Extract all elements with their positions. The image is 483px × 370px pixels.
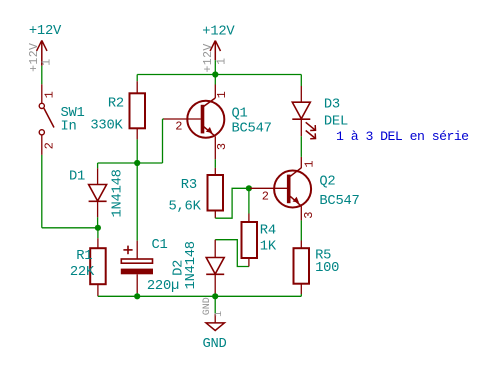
svg-text:1: 1 xyxy=(40,58,53,65)
wire Q2 emitter to R5 xyxy=(300,220,302,240)
svg-text:Q1: Q1 xyxy=(232,107,248,122)
resistor R2 bottom lead xyxy=(136,128,138,139)
switch SW1 pin1 lead xyxy=(41,84,43,103)
svg-text:220µ: 220µ xyxy=(147,279,179,294)
transistor Q1 circle xyxy=(187,101,224,138)
LED D3 triangle xyxy=(292,102,310,119)
resistor R2 top lead xyxy=(136,81,138,93)
switch SW1 blade xyxy=(44,108,54,127)
svg-text:1K: 1K xyxy=(260,239,277,254)
transistor Q2 emitter diagonal xyxy=(290,196,301,206)
resistor R1 bottom lead xyxy=(97,284,99,296)
svg-text:1: 1 xyxy=(216,58,229,65)
svg-text:GND: GND xyxy=(203,337,227,352)
wire D1 to node xyxy=(97,217,99,228)
junction C1 bottom rail xyxy=(134,293,140,299)
diode D2 bottom lead xyxy=(214,274,216,296)
svg-text:1N4148: 1N4148 xyxy=(184,241,199,289)
junction switch/D1/R1 xyxy=(95,225,101,231)
svg-text:BC547: BC547 xyxy=(319,194,359,209)
svg-text:R2: R2 xyxy=(108,97,124,112)
resistor R5 top lead xyxy=(300,241,302,249)
junction R2/D1/C1/base node xyxy=(134,160,140,166)
resistor R4 body xyxy=(242,222,258,258)
svg-text:R1: R1 xyxy=(76,249,92,264)
wire Q1 emitter to R3 xyxy=(214,159,216,168)
svg-text:1 à 3 DEL en série: 1 à 3 DEL en série xyxy=(336,129,469,144)
junction R3/R4/Q2 base xyxy=(246,185,252,191)
svg-text:3: 3 xyxy=(302,211,316,218)
svg-text:1: 1 xyxy=(42,91,56,98)
resistor R1 top lead xyxy=(97,238,99,248)
resistor R5 bottom lead xyxy=(300,284,302,294)
resistor R3 top lead xyxy=(214,168,216,175)
wire node to R1 xyxy=(97,228,99,238)
transistor Q2 collector pin xyxy=(300,157,302,168)
transistor Q1 base bar xyxy=(201,105,205,134)
switch SW1 pin2 lead xyxy=(41,135,43,155)
svg-text:BC547: BC547 xyxy=(232,122,272,137)
capacitor C1 plus sign xyxy=(123,246,132,255)
wire bottom rail xyxy=(98,295,301,297)
wire R3 bottom jog xyxy=(215,188,249,218)
transistor Q1 emitter diagonal xyxy=(204,127,216,137)
wire R5 to bottom rail xyxy=(300,294,302,296)
ground symbol stem xyxy=(214,296,216,313)
svg-text:1N4148: 1N4148 xyxy=(110,169,125,217)
wire power to switch xyxy=(41,66,43,85)
wire node to D1 xyxy=(97,163,99,168)
svg-text:1: 1 xyxy=(302,160,316,167)
capacitor C1 top plate xyxy=(121,259,152,263)
resistor R3 bottom lead xyxy=(214,211,216,219)
junction D2/GND bottom rail xyxy=(212,293,218,299)
diode D1 bottom lead xyxy=(97,201,99,217)
wire junction down to R4 xyxy=(248,188,250,213)
svg-text:1: 1 xyxy=(214,311,225,317)
wire C1 to bottom rail xyxy=(136,293,138,296)
diode D1 triangle xyxy=(89,185,107,202)
svg-text:3: 3 xyxy=(215,143,229,150)
resistor R5 body xyxy=(294,248,310,284)
wire R4 bottom jog to D2 xyxy=(215,240,249,267)
diode D3 bottom lead xyxy=(300,119,302,136)
wire R2 to node xyxy=(136,139,138,163)
transistor Q2 emitter pin xyxy=(300,206,302,220)
diode D3 top lead xyxy=(300,86,302,102)
capacitor C1 bottom lead xyxy=(136,274,138,293)
diode D2 top lead xyxy=(214,240,216,258)
svg-text:D3: D3 xyxy=(324,98,340,113)
transistor Q1 collector pin xyxy=(214,85,216,99)
svg-text:+12V: +12V xyxy=(202,43,215,72)
diode D1 cathode bar xyxy=(89,200,107,202)
svg-text:2: 2 xyxy=(175,120,182,134)
LED D3 cathode bar xyxy=(292,118,310,120)
ground triangle xyxy=(206,323,224,331)
svg-text:C1: C1 xyxy=(152,238,168,253)
diode D2 cathode bar xyxy=(206,273,224,275)
wire switch to R1/D1 node xyxy=(42,227,98,229)
wire rail down to D3 xyxy=(300,75,302,87)
svg-text:DEL: DEL xyxy=(324,115,348,130)
transistor Q2 emitter arrowhead xyxy=(293,197,300,203)
resistor R4 top lead xyxy=(248,214,250,223)
svg-text:D1: D1 xyxy=(69,170,85,185)
switch SW1 pin1 circle xyxy=(39,103,44,108)
transistor Q1 emitter arrowhead xyxy=(206,127,213,133)
switch SW1 pin2 circle xyxy=(39,130,44,135)
transistor Q2 circle xyxy=(274,171,311,208)
resistor R3 body xyxy=(208,175,224,211)
wire node horizontal D1 to base branch xyxy=(98,162,163,164)
wire base branch to Q1 xyxy=(163,118,165,120)
transistor Q2 base bar xyxy=(287,175,291,204)
wire rail to Q1 collector xyxy=(214,75,216,85)
svg-text:R4: R4 xyxy=(260,223,276,238)
diode D1 top lead xyxy=(97,168,99,184)
transistor Q2 base pin xyxy=(250,187,287,189)
wire switch down xyxy=(41,155,43,228)
capacitor C1 bottom plate xyxy=(121,269,153,275)
svg-text:R3: R3 xyxy=(181,178,197,193)
capacitor C1 top lead xyxy=(136,241,138,259)
svg-text:330K: 330K xyxy=(90,119,123,134)
wire D3 to Q2 collector xyxy=(300,136,302,157)
svg-text:+12V: +12V xyxy=(202,24,235,39)
resistor R2 body xyxy=(130,93,146,128)
svg-text:+12V: +12V xyxy=(29,24,62,39)
transistor Q1 base pin xyxy=(164,118,201,120)
power symbol PWR02 +12V arrow (middle) xyxy=(210,41,220,61)
svg-text:2: 2 xyxy=(262,190,269,204)
svg-text:Q2: Q2 xyxy=(319,174,335,189)
power symbol PWR01 +12V arrow (left) xyxy=(37,40,47,65)
wire power stem to top rail xyxy=(214,60,216,74)
transistor Q1 collector diagonal xyxy=(204,98,216,107)
diode D2 triangle xyxy=(206,258,224,275)
wire rail down to R2 xyxy=(136,75,138,82)
LED D3 emission arrow 2 xyxy=(306,131,316,139)
resistor R1 body xyxy=(90,248,106,284)
svg-text:1: 1 xyxy=(215,91,229,98)
svg-text:In: In xyxy=(61,120,77,135)
resistor R4 bottom lead xyxy=(248,258,250,267)
svg-text:100: 100 xyxy=(315,261,339,276)
wire base branch up xyxy=(162,119,164,163)
svg-text:5,6K: 5,6K xyxy=(169,199,202,214)
wire top rail xyxy=(137,74,301,76)
junction top rail / Q1 collector xyxy=(212,71,218,77)
LED D3 emission arrow 1 xyxy=(306,122,316,130)
svg-text:GND: GND xyxy=(202,297,213,315)
transistor Q1 emitter pin xyxy=(214,136,216,159)
svg-text:+12V: +12V xyxy=(28,43,41,72)
wire node down to C1 xyxy=(136,163,138,241)
svg-text:2: 2 xyxy=(42,142,56,149)
svg-text:22K: 22K xyxy=(70,265,95,280)
transistor Q2 collector diagonal xyxy=(290,168,301,177)
